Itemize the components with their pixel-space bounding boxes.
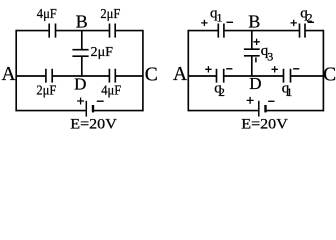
wire: left circuit middle row [16,75,143,77]
node A right [173,64,187,85]
wire: left circuit top side [16,30,143,32]
svg-text:B: B [248,12,260,32]
label q1 top [210,5,223,24]
minus sign of q3 (vertical) [255,57,257,62]
wire: right circuit top side [188,30,323,32]
svg-text:3: 3 [267,49,273,63]
capacitor 2uF vertical B-D [72,50,88,57]
capacitor q2 middle-left [217,69,224,83]
battery E left circuit long plate [85,101,87,117]
label 2uF top-right [100,7,120,22]
wire: left circuit left side [15,30,17,112]
svg-text:4μF: 4μF [37,7,57,22]
capacitor 4uF top-left [49,24,55,38]
label 4uF top-left [37,7,57,22]
wire: left circuit bottom side [16,110,143,112]
svg-text:2: 2 [219,85,225,99]
label q2 middle [214,81,225,99]
capacitor q3 vertical B-D [244,49,260,56]
label 4uF bottom-right [101,83,121,98]
battery minus sign left [97,100,104,102]
label 2uF bottom-left [36,83,56,98]
svg-text:B: B [76,12,88,32]
svg-text:C: C [323,64,336,85]
node C left [145,64,158,85]
battery plus sign left [77,98,84,105]
svg-text:4μF: 4μF [101,83,121,98]
plus sign of q1 middle [272,66,278,72]
node D left [74,74,86,93]
minus sign of q1 top [227,21,234,23]
minus sign of q1 middle [293,68,299,70]
node B right [248,12,260,32]
label q2 top [300,5,312,24]
wire: right circuit left side [187,30,189,112]
svg-text:A: A [173,64,187,85]
svg-text:C: C [145,64,158,85]
svg-text:2: 2 [307,11,313,25]
minus sign of q2 top [308,21,314,23]
wire: left circuit B-D branch [81,31,83,76]
svg-text:2μF: 2μF [100,7,120,22]
node A left [1,64,15,85]
node D right [249,74,261,93]
svg-text:E=20V: E=20V [241,117,288,133]
capacitor q1 top-left [218,24,224,38]
svg-text:D: D [74,74,86,93]
svg-text:E=20V: E=20V [70,117,117,133]
label E=20V right [241,117,288,133]
svg-text:1: 1 [286,85,292,99]
label q1 middle [282,81,293,99]
plus sign of q1 top [201,20,207,26]
capacitor q2 top-right [300,24,306,38]
plus sign of q2 middle [205,66,211,72]
svg-text:2μF: 2μF [91,45,114,60]
label q3 [261,43,273,63]
battery E right circuit long plate [258,101,260,117]
svg-text:1: 1 [217,11,223,25]
battery E left circuit short plate [92,105,94,112]
capacitor q1 middle-right [284,69,291,83]
capacitor 2uF middle-left [46,69,52,83]
wire: right circuit B-D branch [251,31,253,76]
wire: right circuit right side [322,30,324,112]
wire: right circuit middle row [188,75,323,77]
plus sign of q2 top [291,20,297,26]
svg-text:2μF: 2μF [36,83,56,98]
label E=20V left [70,117,117,133]
wire: left circuit right side [142,30,144,112]
node C right [323,64,336,85]
plus sign of q3 [253,39,259,45]
node B left [76,12,88,32]
svg-text:D: D [249,74,261,93]
capacitor 4uF middle-right [109,69,115,83]
battery minus sign right [268,100,274,102]
battery E right circuit short plate [264,105,266,112]
capacitor 2uF top-right [110,24,116,38]
minus sign of q2 middle [226,68,232,70]
svg-text:A: A [1,64,15,85]
label 2uF vertical cap [91,45,114,60]
battery plus sign right [247,97,254,104]
wire: right circuit bottom side [188,110,323,112]
